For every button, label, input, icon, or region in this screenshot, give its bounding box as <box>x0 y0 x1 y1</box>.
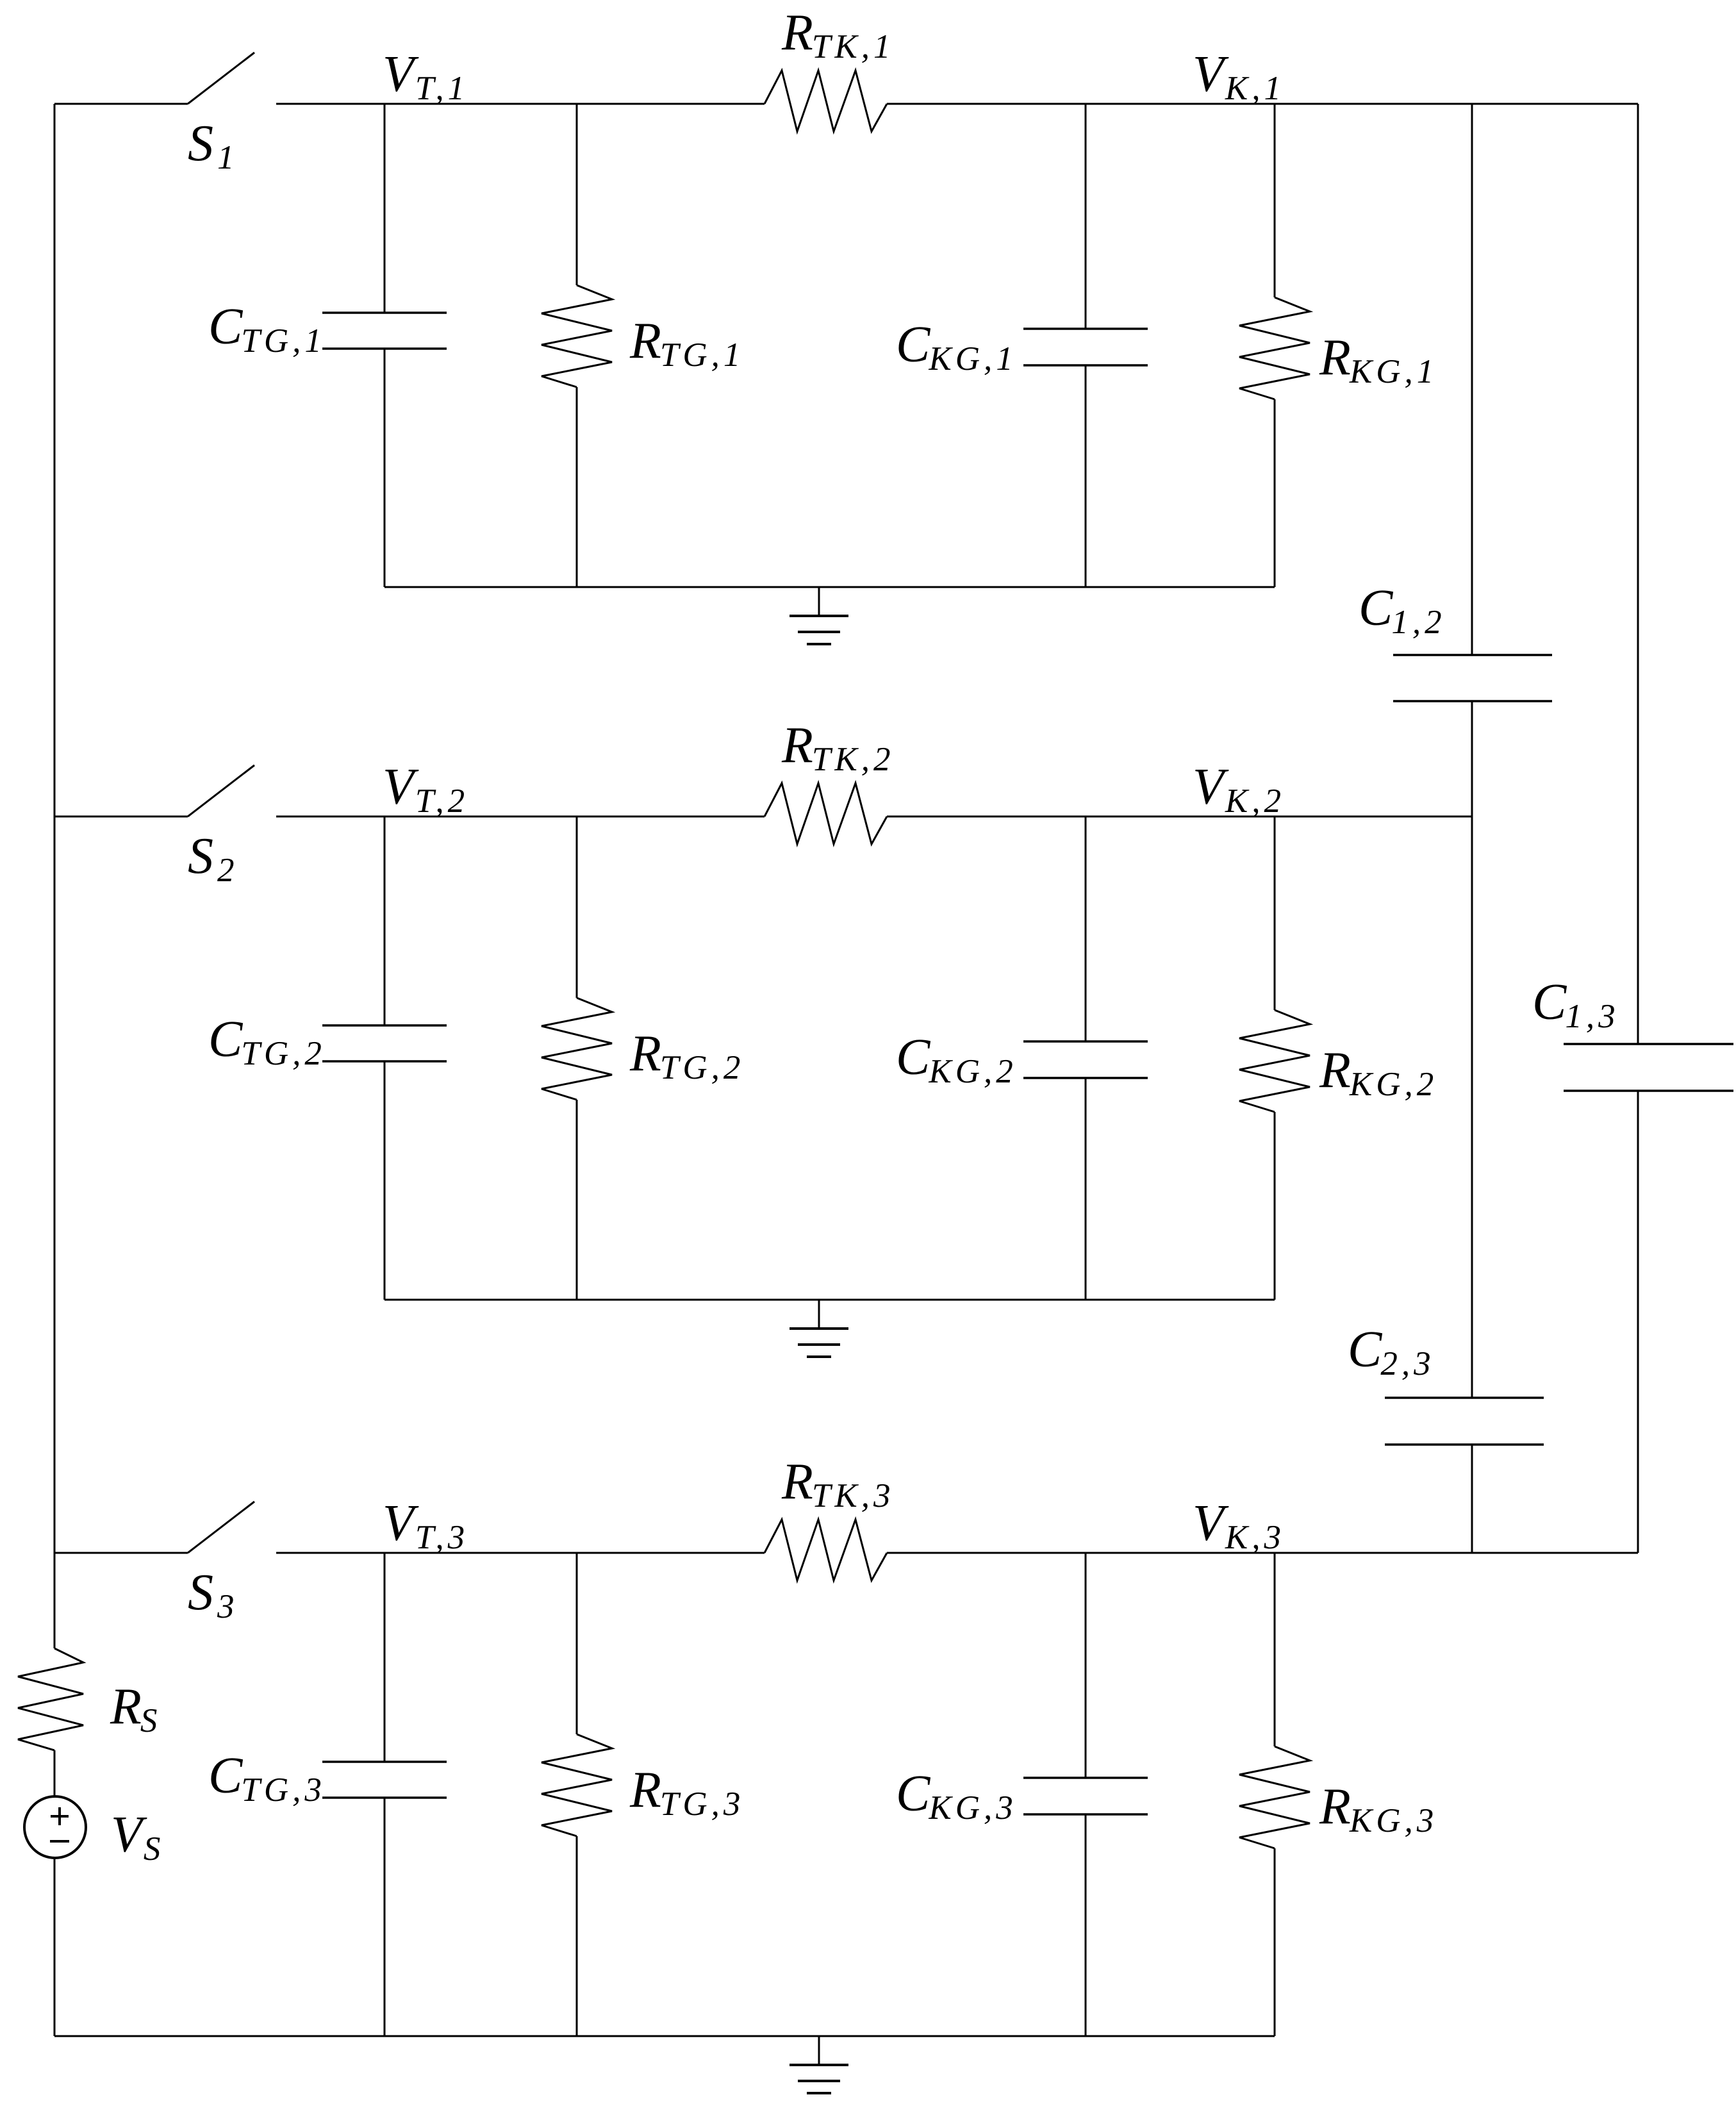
wire node VT3 to RTK3 <box>384 1552 765 1554</box>
wire RTG3 column lower <box>576 1836 578 2036</box>
label VT,1 <box>383 46 468 107</box>
wire VT3 column upper <box>384 1553 386 1762</box>
label RTK,3 <box>781 1454 894 1514</box>
wire bus B2 lower segment <box>1637 1091 1639 1553</box>
wire RTG1 column lower <box>576 387 578 587</box>
wire VT3 column lower <box>384 1798 386 2036</box>
label RTG,1 <box>629 313 744 374</box>
switch S1 blade <box>188 53 254 104</box>
label RKG,1 <box>1319 329 1437 390</box>
wire RKG1 column lower <box>1274 399 1276 587</box>
wire RKG3 column lower <box>1274 1848 1276 2036</box>
wire switch S2 to node VT2 <box>276 816 384 818</box>
label S2 <box>188 828 238 889</box>
label VS <box>111 1807 164 1868</box>
wire below VS to bottom <box>54 1858 56 2036</box>
wire between RS and VS <box>54 1750 56 1796</box>
capacitor CKG3 <box>1023 1778 1148 1814</box>
label RTK,1 <box>781 4 894 65</box>
label VK,1 <box>1193 46 1285 107</box>
label C2,3 <box>1348 1322 1435 1382</box>
label RKG,2 <box>1319 1042 1437 1103</box>
wire stage2 bottom <box>384 1299 1275 1301</box>
wire stage1 bottom <box>384 586 1275 588</box>
wire switch S1 to node VT1 <box>276 103 384 105</box>
resistor RS <box>18 1648 83 1750</box>
wire stage2 from bus to switch S2 <box>54 816 188 818</box>
label VK,2 <box>1193 759 1285 820</box>
source VS <box>24 1796 86 1858</box>
resistor RTG2 <box>541 998 612 1100</box>
wire VT2 column upper <box>384 816 386 1025</box>
label CTG,3 <box>208 1748 326 1809</box>
wire CKG3 column upper <box>1085 1553 1087 1778</box>
wire VT1 column lower <box>384 349 386 587</box>
resistor RKG2 <box>1239 1010 1310 1112</box>
wire RTG1 column upper <box>576 104 578 285</box>
resistor RKG1 <box>1239 297 1310 399</box>
wire CKG1 column upper <box>1085 104 1087 329</box>
label C1,2 <box>1359 580 1446 641</box>
wire VT2 column lower <box>384 1061 386 1300</box>
resistor RTG1 <box>541 285 612 387</box>
wire CKG3 column lower <box>1085 1814 1087 2036</box>
wire RKG3 column upper <box>1274 1553 1276 1746</box>
wire node VK3 to right bus <box>1275 1552 1638 1554</box>
label C1,3 <box>1532 974 1619 1035</box>
resistor RTK1 <box>765 70 887 131</box>
ground stage1 <box>789 587 848 644</box>
wire RKG1 column upper <box>1274 104 1276 297</box>
wire left supply bus vertical <box>54 104 56 1648</box>
label RTK,2 <box>781 717 894 778</box>
wire bus B1 lower segment <box>1471 1445 1473 1553</box>
wire node VK2 to right bus <box>1275 816 1472 818</box>
wire node VT1 to RTK1 <box>384 103 765 105</box>
label VK,3 <box>1193 1495 1285 1556</box>
capacitor CKG2 <box>1023 1041 1148 1078</box>
wire switch S3 to node VT3 <box>276 1552 384 1554</box>
ground stage2 <box>789 1300 848 1357</box>
resistor RTG3 <box>541 1734 612 1836</box>
wire bus B1 middle segment <box>1471 701 1473 1398</box>
wire RTG2 column lower <box>576 1100 578 1300</box>
label S1 <box>188 115 238 176</box>
wire RTG3 column upper <box>576 1553 578 1734</box>
wire RTG2 column upper <box>576 816 578 998</box>
label RTG,2 <box>629 1025 744 1086</box>
switch S3 blade <box>188 1502 254 1553</box>
ground stage3 <box>789 2036 848 2093</box>
label CKG,1 <box>896 317 1017 377</box>
wire bus B2 upper segment <box>1637 104 1639 1044</box>
wire node VK1 to right bus <box>1275 103 1638 105</box>
label CTG,1 <box>208 299 326 360</box>
capacitor CTG2 <box>322 1025 447 1061</box>
wire CKG2 column lower <box>1085 1078 1087 1300</box>
wire RKG2 column lower <box>1274 1112 1276 1300</box>
resistor RKG3 <box>1239 1746 1310 1848</box>
capacitor C23 <box>1385 1398 1544 1445</box>
wire VT1 column upper <box>384 104 386 313</box>
label RS <box>110 1678 161 1739</box>
label CTG,2 <box>208 1011 326 1072</box>
wire RKG2 column upper <box>1274 816 1276 1010</box>
capacitor CKG1 <box>1023 329 1148 365</box>
capacitor C12 <box>1393 655 1552 701</box>
switch S2 blade <box>188 765 254 816</box>
label CKG,3 <box>896 1766 1017 1827</box>
label RTG,3 <box>629 1762 744 1823</box>
label S3 <box>188 1564 238 1625</box>
resistor RTK2 <box>765 783 887 844</box>
wire stage1 from bus to switch S1 <box>54 103 188 105</box>
label CKG,2 <box>896 1029 1017 1090</box>
wire RTK3 to node VK3 <box>887 1552 1275 1554</box>
wire CKG2 column upper <box>1085 816 1087 1041</box>
wire bus B1 upper segment <box>1471 104 1473 655</box>
wire node VT2 to RTK2 <box>384 816 765 818</box>
resistor RTK3 <box>765 1520 887 1580</box>
wire RTK1 to node VK1 <box>887 103 1275 105</box>
label RKG,3 <box>1319 1778 1437 1839</box>
capacitor C13 <box>1564 1044 1733 1091</box>
capacitor CTG1 <box>322 313 447 349</box>
label VT,3 <box>383 1495 468 1556</box>
capacitor CTG3 <box>322 1762 447 1798</box>
label VT,2 <box>383 759 468 820</box>
wire CKG1 column lower <box>1085 365 1087 587</box>
wire stage3 from bus to switch S3 <box>54 1552 188 1554</box>
wire stage3 bottom <box>54 2035 1275 2037</box>
wire RTK2 to node VK2 <box>887 816 1275 818</box>
